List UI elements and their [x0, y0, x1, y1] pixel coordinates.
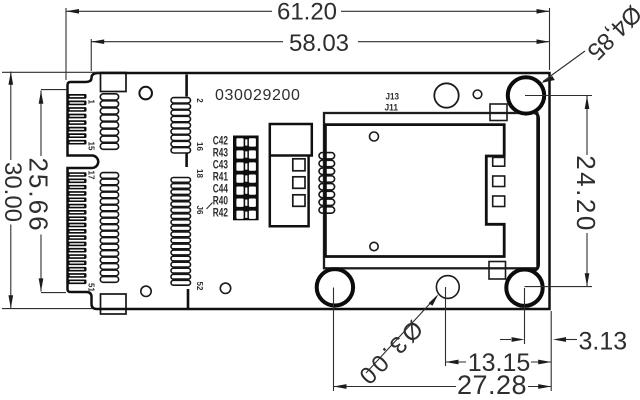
SIM pad right 3	[493, 196, 505, 207]
mounting pad square top-left	[101, 73, 127, 92]
svg-text:R42: R42	[213, 207, 228, 219]
pad B3	[293, 195, 305, 207]
dimension 13.15	[446, 287, 552, 377]
dimension 27.28	[334, 288, 552, 400]
svg-text:2: 2	[195, 98, 204, 103]
svg-text:R43: R43	[213, 147, 228, 159]
dimension 25.66	[24, 90, 68, 293]
dimension 61.20	[66, 0, 550, 80]
SIM tray edge	[531, 112, 539, 271]
mounting hole bottom-left 4.85	[315, 267, 355, 307]
svg-text:16: 16	[195, 142, 204, 151]
leader 4.85	[541, 0, 640, 83]
svg-text:58.03: 58.03	[289, 30, 349, 57]
gold fingers column group1 (pins 1-15)	[67, 94, 86, 145]
pad square bottom-right	[489, 262, 506, 280]
castellation ovals	[319, 153, 335, 214]
pad B1	[293, 159, 305, 171]
svg-text:15: 15	[87, 142, 96, 151]
svg-text:R40: R40	[213, 195, 228, 207]
svg-text:R41: R41	[213, 171, 229, 183]
SIM pad right 1	[493, 157, 505, 166]
SIM pad right 2	[493, 176, 505, 187]
silk divider line middle at x186.6	[185, 153, 188, 168]
svg-text:030029200: 030029200	[215, 87, 301, 104]
leader 3.00	[351, 294, 438, 391]
silk divider line top at x186.6	[185, 75, 188, 97]
mounting hole bottom-right 4.85	[505, 268, 545, 308]
board outline	[68, 73, 550, 309]
J11 footprint thin rect	[324, 113, 537, 268]
SIM circle bottom	[370, 242, 378, 250]
svg-text:51: 51	[87, 283, 96, 292]
gold fingers column group2 (pins 17-51)	[67, 172, 86, 284]
svg-text:C43: C43	[213, 159, 228, 171]
svg-text:17: 17	[87, 171, 96, 180]
hole medium near J13	[434, 83, 458, 107]
dimension 24.20	[525, 96, 602, 287]
svg-text:18: 18	[195, 169, 204, 178]
svg-text:C42: C42	[213, 135, 228, 147]
dimension 58.03	[91, 8, 549, 71]
mounting pad square bottom-left	[101, 294, 127, 314]
svg-text:25.66: 25.66	[24, 157, 54, 232]
mounting hole top-right 4.85	[506, 75, 546, 115]
svg-text:C44: C44	[213, 183, 229, 195]
hole 3.00 bottom-center	[436, 276, 459, 299]
pad B2	[293, 177, 305, 189]
svg-text:27.28: 27.28	[457, 370, 527, 400]
svg-text:1: 1	[87, 100, 96, 105]
pad column B group2	[100, 173, 118, 283]
svg-text:3.13: 3.13	[579, 328, 628, 356]
pad square top-right	[490, 104, 507, 121]
svg-text:24.20: 24.20	[571, 155, 601, 233]
hole small bottom 2	[220, 283, 230, 293]
dimension 3.13	[500, 288, 627, 391]
svg-text:J6: J6	[195, 206, 204, 215]
pad column C group2	[171, 178, 191, 286]
SIM circle top	[370, 132, 379, 141]
J6 leader arrow	[207, 203, 213, 210]
hole small bottom 1	[141, 286, 151, 296]
component rect B	[270, 156, 309, 227]
component rect A	[270, 124, 312, 156]
connector J6 pad block	[233, 136, 259, 221]
hole small near J13	[473, 90, 482, 99]
SIM connector body	[325, 125, 504, 257]
silk divider line bottom at x186.6	[187, 289, 190, 308]
dimension 30.00	[0, 72, 99, 309]
svg-text:52: 52	[195, 282, 204, 291]
pad column C group1	[171, 98, 191, 153]
svg-text:61.20: 61.20	[277, 0, 337, 26]
hole top-left small	[139, 87, 152, 100]
pad column B group1	[100, 94, 118, 150]
svg-text:30.00: 30.00	[0, 162, 26, 222]
svg-text:J13: J13	[386, 92, 400, 103]
